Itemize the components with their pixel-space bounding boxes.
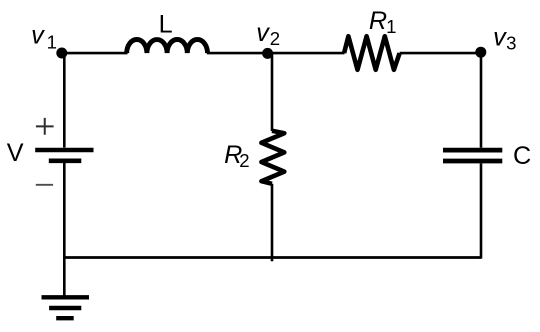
- wire: bottom rail down to ground: [63, 258, 66, 296]
- svg-text:2: 2: [270, 28, 280, 49]
- node v1: [56, 48, 67, 59]
- capacitor C top plate: [443, 148, 502, 153]
- svg-text:R: R: [369, 7, 387, 35]
- svg-text:v: v: [493, 24, 507, 52]
- wire mid: R2 down past bottom rail: [271, 184, 274, 261]
- wire mid: v2 down to R2: [271, 53, 274, 131]
- svg-text:3: 3: [506, 32, 516, 53]
- resistor R1: [344, 36, 400, 70]
- resistor R2: [261, 131, 284, 184]
- wire left: v1 down to battery: [63, 53, 66, 148]
- svg-text:2: 2: [239, 150, 249, 171]
- battery V positive plate: [35, 148, 93, 153]
- wire right: C down to bottom rail: [480, 163, 483, 258]
- wire left: battery down to bottom rail: [63, 163, 66, 258]
- svg-text:v: v: [256, 19, 270, 47]
- inductor L: [127, 39, 208, 53]
- battery V negative plate: [49, 159, 82, 164]
- svg-text:V: V: [7, 139, 24, 167]
- svg-text:v: v: [31, 21, 45, 49]
- wire top: L to v2: [207, 52, 268, 55]
- svg-text:1: 1: [47, 31, 57, 52]
- wire bottom rail: [63, 256, 481, 259]
- minus sign: [36, 184, 53, 186]
- svg-text:C: C: [513, 142, 531, 170]
- ground: [42, 297, 90, 318]
- wire top: R1 to v3: [400, 52, 481, 55]
- wire top: v2 to R1: [267, 52, 345, 55]
- plus sign: [36, 118, 54, 135]
- capacitor C bottom plate: [443, 159, 502, 164]
- node v3: [475, 47, 486, 58]
- wire right: v3 down to C: [480, 52, 483, 148]
- wire top: v1 to L: [61, 52, 128, 55]
- svg-text:L: L: [159, 11, 173, 39]
- svg-text:1: 1: [386, 16, 396, 37]
- node v2: [262, 48, 273, 59]
